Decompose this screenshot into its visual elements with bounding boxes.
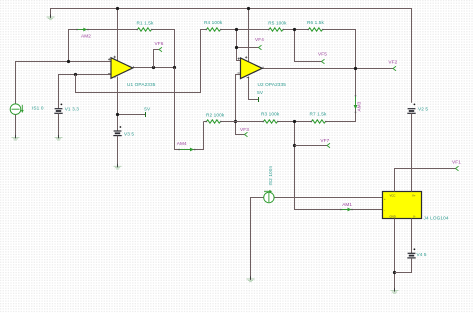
wire battery V1 to ground: [58, 113, 60, 136]
svg-text:VF2: VF2: [388, 60, 397, 65]
svg-text:V1 3.3: V1 3.3: [65, 107, 80, 112]
svg-text:VF5: VF5: [318, 52, 327, 57]
svg-text:J4 LOG104: J4 LOG104: [424, 216, 449, 221]
wire top rail from ground G1 to V2 battery column: [51, 9, 412, 103]
voltage pin VF6: [154, 50, 160, 68]
svg-text:V+: V+: [412, 193, 416, 197]
op-amp U2 OPA2335: [241, 58, 263, 79]
resistor R6 1.5k: [309, 28, 323, 31]
svg-text:V3 5: V3 5: [124, 132, 134, 137]
wire LOG104 bottom-left pin to ground: [394, 219, 396, 290]
svg-text:AM3: AM3: [357, 101, 362, 111]
svg-text:R1 1.5k: R1 1.5k: [137, 21, 155, 26]
ground under IS1: [12, 137, 20, 140]
voltage pin VF4: [237, 47, 259, 49]
resistor R3 100k: [264, 120, 278, 123]
svg-text:IS1 0: IS1 0: [32, 106, 44, 111]
ground: [114, 166, 122, 169]
wire battery V2 down to LOG104 top-right pin: [411, 113, 413, 191]
svg-text:VF6: VF6: [155, 41, 164, 46]
svg-text:U2 OPA2335: U2 OPA2335: [258, 82, 287, 87]
ammeter AM3: [355, 97, 357, 106]
ground under LOG104: [391, 291, 399, 294]
resistor R4 100k: [207, 28, 221, 31]
svg-text:5V: 5V: [144, 107, 151, 112]
voltage pin VF1 from LOG104 top-left pin: [395, 169, 456, 192]
ammeter AM2: [78, 29, 85, 31]
svg-text:R2 100k: R2 100k: [206, 113, 225, 118]
wire battery V4 to bottom node: [395, 258, 412, 273]
svg-text:GND: GND: [390, 214, 396, 218]
wire battery V3 to ground: [117, 136, 119, 165]
wire inverting node down and right to R4 left: [76, 30, 207, 93]
battery V2 5: [407, 109, 415, 114]
wire U2 top power pin to rail: [248, 9, 250, 62]
svg-text:R7 1.5k: R7 1.5k: [310, 112, 328, 117]
voltage pin VF3: [245, 132, 248, 136]
svg-text:V4 5: V4 5: [417, 252, 427, 257]
junction output node: [152, 66, 155, 69]
current source IS2 100n: [251, 198, 264, 278]
wire R3 right to R7 left: [278, 121, 312, 123]
svg-text:AM1: AM1: [342, 202, 352, 207]
wire feedback from output node down through AM4 to R2: [175, 68, 204, 150]
svg-text:VF4: VF4: [255, 37, 264, 42]
battery V1 3.3: [54, 109, 62, 114]
resistor terminal dots: [136, 29, 326, 123]
wire branch from AM2 loop down to +input node: [69, 30, 138, 62]
battery V3 5: [113, 131, 121, 136]
node junction at +input: [67, 60, 70, 63]
svg-text:AM2: AM2: [81, 33, 91, 38]
wire V1 battery to U1 inverting input: [59, 75, 112, 109]
svg-text:R5 100k: R5 100k: [268, 21, 287, 26]
svg-text:VF3: VF3: [240, 127, 249, 132]
junction inverting input node: [74, 73, 77, 76]
svg-text:U1 OPA2335: U1 OPA2335: [127, 82, 156, 87]
wire R2 left lead: [204, 121, 207, 123]
ammeter AM4: [180, 149, 191, 151]
wire U1 output: [133, 67, 175, 69]
svg-text:AM4: AM4: [177, 141, 187, 146]
svg-text:V2 5: V2 5: [418, 107, 428, 112]
wire R2 right to R3 left: [221, 121, 264, 123]
wire IS1 to U1 noninverting input: [16, 62, 112, 105]
svg-text:R4 100k: R4 100k: [204, 20, 223, 25]
resistor R7 1.5k: [312, 120, 326, 123]
voltage pin VF7: [295, 145, 328, 147]
svg-text:5V: 5V: [257, 90, 264, 95]
svg-text:VCC: VCC: [390, 193, 396, 197]
voltage pin VF5 tap at R5/R6 node: [295, 30, 322, 62]
wire R-network node down to LOG104 lower-left pin: [295, 122, 383, 210]
jumper 5V (U2 supply): [249, 77, 259, 100]
svg-text:-: -: [384, 209, 385, 213]
svg-text:R6 1.5k: R6 1.5k: [307, 20, 325, 25]
resistor R1 1.5k: [138, 28, 152, 31]
wire U2 output to VF2: [262, 68, 394, 70]
svg-text:R3 100k: R3 100k: [261, 112, 280, 117]
wire R5 right to R6 left: [283, 29, 309, 31]
svg-text:IS2 100n: IS2 100n: [268, 166, 273, 186]
jumper 5V (U1 supply): [118, 114, 146, 116]
wire IS1 to ground: [15, 115, 17, 137]
wire U1 top power pin to rail: [117, 9, 119, 62]
ground under IS2: [247, 279, 255, 282]
wire R4 right to R5 left: [221, 29, 270, 31]
wire U2 inverting input down to R2/R3 node and VF3: [236, 75, 245, 135]
current source IS1 0: [10, 104, 21, 115]
wire R6 right down through AM3 to R7 right: [323, 30, 356, 122]
IC J4 LOG104: [383, 192, 422, 219]
wire R1 right lead down to U1 output node: [152, 30, 175, 68]
voltage pin VF2: [393, 66, 396, 70]
svg-text:VF7: VF7: [320, 138, 329, 143]
ground under V1: [55, 137, 63, 140]
battery V4 5: [407, 253, 415, 258]
wire U2 +input from R4/R5 node: [237, 30, 241, 61]
wire U1 bottom power pin down to battery V3: [117, 77, 119, 132]
wire LOG104 bottom-right pin to battery V4: [411, 219, 413, 254]
op-amp U1 OPA2335: [111, 58, 133, 79]
resistor R2 100k: [207, 120, 221, 123]
ground: [47, 17, 55, 20]
ammeter AM1: [342, 209, 349, 211]
svg-text:VF1: VF1: [452, 159, 461, 164]
svg-text:V-: V-: [413, 214, 416, 218]
resistor R5 100k: [269, 28, 283, 31]
